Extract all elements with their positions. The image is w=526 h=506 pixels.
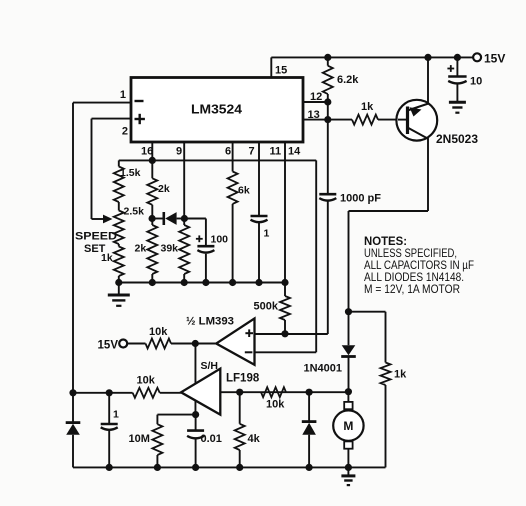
node rail/10uF [454, 54, 461, 61]
resistor 6k [228, 172, 238, 204]
svg-text:2.5k: 2.5k [124, 206, 145, 218]
svg-text:7: 7 [249, 146, 255, 158]
node bus/0.01 [192, 464, 199, 471]
node 500k bottom / + input [281, 330, 288, 337]
resistor 2k (lower) [151, 219, 153, 226]
capacitor 0.01 uF [195, 415, 197, 430]
node motor top [345, 388, 352, 395]
node collector/1N4001/1k [345, 308, 352, 315]
capacitor 1 uF (pin 7) [251, 215, 268, 218]
op-amp/IC U1 LM3524 body [131, 78, 303, 143]
node 1uF tap [106, 389, 113, 396]
node hold-cap junction [192, 411, 199, 418]
node pin13 [324, 116, 331, 123]
svg-text:SPEED: SPEED [75, 231, 117, 243]
wire LF198 output line [73, 392, 133, 394]
wire hold node [157, 414, 195, 416]
svg-text:10k: 10k [266, 399, 285, 411]
svg-text:2k: 2k [158, 183, 170, 195]
resistor 2k (upper) [147, 178, 157, 205]
wire pins12/13 down to 1000pF and LM393 + node [327, 102, 329, 194]
motor M (12V 1A) [347, 392, 349, 402]
pot wiper arrow [103, 215, 113, 224]
node pin16/rail [149, 157, 156, 164]
op-amp U2 half LM393 (points left) [216, 319, 254, 365]
svg-text:500k: 500k [254, 301, 279, 313]
wire pin 16 stub [151, 142, 153, 161]
resistor 1k (motor) [349, 311, 386, 313]
wire to 100uF [184, 218, 206, 220]
svg-text:39k: 39k [161, 243, 179, 255]
svg-text:2k: 2k [135, 243, 147, 255]
node bus/4k [236, 464, 243, 471]
wire pin 15 to rail [270, 57, 272, 77]
wire pin 7 [258, 142, 260, 216]
diode D3 1N4148 (motor clamp) [308, 392, 310, 421]
diode D4 1N4001 [348, 312, 350, 346]
wire ground bus (mid) [119, 282, 285, 284]
diode D1 1N4148 (horizontal) [152, 218, 162, 220]
svg-text:15V: 15V [484, 52, 505, 66]
svg-text:15V: 15V [98, 340, 119, 352]
svg-text:1k: 1k [394, 369, 407, 381]
resistor 6.2k [327, 57, 329, 65]
svg-text:6: 6 [225, 146, 231, 158]
node LM393 out / S-H [192, 340, 199, 347]
node bus/1uF [255, 279, 262, 286]
capacitor 1 uF (bottom left) [108, 393, 110, 423]
transistor Q1 2N5023 [396, 100, 437, 141]
svg-text:6k: 6k [238, 185, 250, 197]
ground (supply cap) [449, 101, 466, 104]
node bus/6k [229, 279, 236, 286]
svg-text:M: M [343, 419, 353, 433]
wire ground bus (bottom) [73, 466, 386, 468]
node bus/motor [345, 464, 352, 471]
node 4k tap [236, 389, 243, 396]
wire to LM393 - input [315, 160, 317, 352]
svg-text:0.01: 0.01 [201, 433, 222, 445]
svg-text:LF198: LF198 [226, 373, 260, 385]
svg-text:½ LM393: ½ LM393 [186, 316, 234, 328]
wire LF198 input line [220, 391, 348, 393]
svg-text:9: 9 [176, 146, 182, 158]
wire LM393 + input [252, 333, 285, 335]
resistor 10k (LF198 output) [133, 388, 160, 398]
svg-text:1: 1 [120, 89, 126, 101]
node pin12 [324, 98, 331, 105]
op-amp U3 LF198 (points left) [181, 369, 220, 415]
wire pins 11/14 [284, 142, 286, 283]
svg-text:1N4001: 1N4001 [304, 363, 343, 375]
resistor 1k (base) [328, 119, 352, 121]
svg-text:M = 12V, 1A MOTOR: M = 12V, 1A MOTOR [364, 284, 460, 296]
node bus/chain [115, 279, 122, 286]
svg-text:SET: SET [84, 243, 106, 255]
svg-text:10k: 10k [149, 326, 168, 338]
svg-text:LM3524: LM3524 [191, 103, 242, 117]
resistor 1.5k [118, 160, 120, 166]
wire pin 9 [183, 142, 185, 219]
wire emitter to rail [427, 57, 429, 105]
resistor 39k [183, 219, 185, 226]
svg-text:10k: 10k [137, 375, 156, 387]
svg-text:14: 14 [288, 146, 301, 158]
U1 plus sign (pin 2 internal) [135, 118, 145, 120]
wire pin 2 to pot wiper [92, 118, 132, 120]
wire pin 6 [232, 142, 234, 172]
svg-text:10M: 10M [129, 433, 150, 445]
wire LM393 output [195, 343, 216, 345]
node rail/6.2k [324, 54, 331, 61]
ground (speed-set chain) [118, 283, 120, 295]
node bus/2k [149, 279, 156, 286]
capacitor 100 uF [197, 245, 214, 248]
node bus/10M [154, 464, 161, 471]
svg-text:2: 2 [122, 126, 128, 138]
resistor 500k [280, 296, 290, 320]
resistor 1k (speed set lower) [118, 244, 120, 247]
potentiometer 2.5k (SPEED SET) [118, 202, 120, 211]
wire collector down and to 1N4001 node [427, 139, 429, 212]
resistor 10M [156, 415, 158, 425]
node diode tap [306, 389, 313, 396]
svg-text:S/H: S/H [201, 360, 219, 372]
svg-text:10: 10 [470, 76, 482, 88]
wire pin 1 down left side [73, 102, 131, 104]
node bus/1uF [106, 464, 113, 471]
resistor 10k (LF198 input) [261, 387, 286, 397]
svg-text:1k: 1k [361, 101, 374, 113]
node bus/100uF [202, 279, 209, 286]
svg-text:6.2k: 6.2k [337, 74, 359, 86]
wire pin 12 [303, 101, 328, 103]
terminal 15V (top right) [473, 53, 481, 61]
svg-text:2N5023: 2N5023 [436, 134, 478, 146]
node diode left [149, 215, 156, 222]
U1 minus sign (pin 1 internal) [135, 100, 144, 102]
svg-text:1: 1 [264, 228, 270, 240]
node rail/emitter [424, 54, 431, 61]
node bus/39k [181, 279, 188, 286]
svg-text:NOTES:: NOTES: [364, 236, 407, 248]
svg-text:15: 15 [275, 65, 287, 77]
svg-text:ALL DIODES 1N4148.: ALL DIODES 1N4148. [364, 272, 464, 284]
resistor 4k [239, 392, 241, 424]
svg-text:100: 100 [211, 234, 229, 246]
capacitor 1000 pF [319, 193, 336, 196]
wire 5V-ref rail (pin 16) [119, 159, 316, 161]
wire S/H control [194, 344, 196, 415]
svg-text:UNLESS SPECIFIED,: UNLESS SPECIFIED, [364, 248, 457, 260]
ground (motor) [347, 467, 349, 475]
wire pin 13 [303, 119, 328, 121]
svg-text:1: 1 [113, 409, 119, 421]
wire +15V top rail [271, 56, 473, 58]
svg-text:4k: 4k [248, 433, 261, 445]
svg-text:1000 pF: 1000 pF [340, 193, 381, 205]
node pin1-wire/output [69, 389, 76, 396]
diode D2 1N4148 (left clamp) [72, 393, 74, 422]
wire pin 16 chain [151, 160, 153, 178]
svg-text:ALL CAPACITORS IN µF: ALL CAPACITORS IN µF [364, 260, 474, 272]
capacitor 10 uF (supply) [456, 57, 458, 75]
node bus/pins11-14 [281, 279, 288, 286]
svg-text:1.5k: 1.5k [120, 167, 141, 179]
resistor 10k (to LM393 out) [127, 343, 145, 345]
node diode right [181, 215, 188, 222]
node bus/diode [306, 464, 313, 471]
terminal 15V (comparator) [119, 340, 127, 348]
svg-text:11: 11 [270, 146, 282, 158]
